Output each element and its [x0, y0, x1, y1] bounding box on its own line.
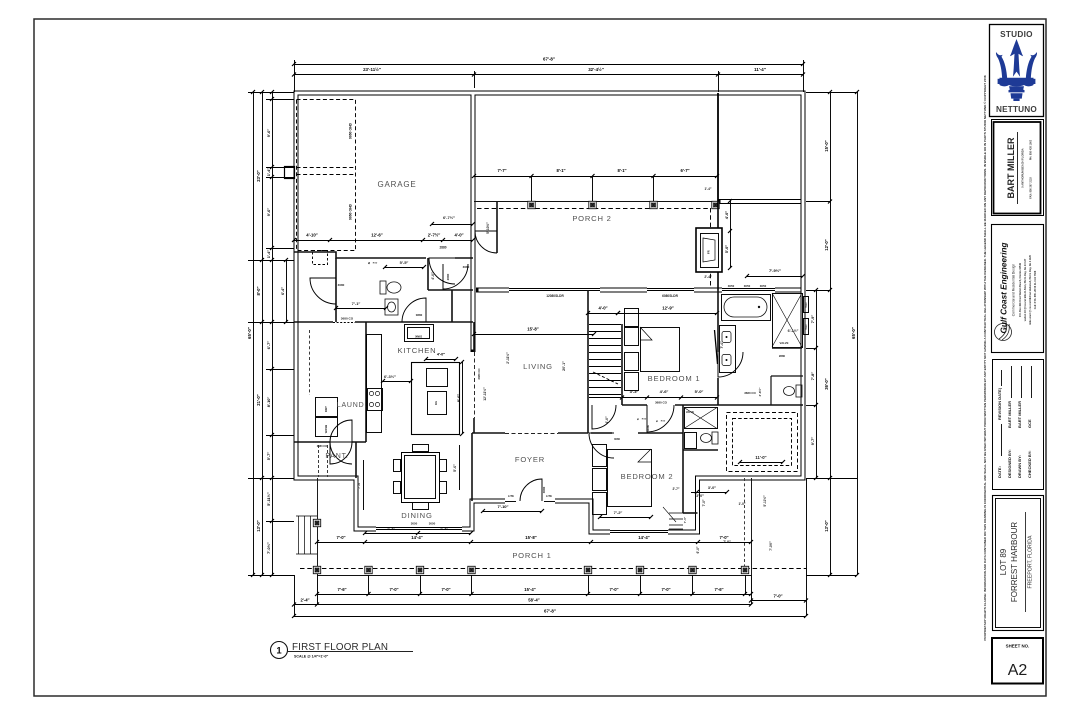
svg-text:BART MILLER: BART MILLER: [1017, 401, 1022, 428]
svg-text:5′-0″: 5′-0″: [695, 389, 704, 394]
svg-text:15′-8″: 15′-8″: [525, 535, 536, 540]
svg-text:1′-4″: 1′-4″: [705, 187, 712, 191]
svg-text:8′-10″: 8′-10″: [266, 397, 271, 408]
svg-text:4′-6″: 4′-6″: [660, 389, 669, 394]
living dim: [474, 334, 594, 336]
title block: revision box: [993, 360, 1044, 490]
svg-text:7′-9½″: 7′-9½″: [769, 268, 781, 273]
svg-text:Gulf Coast Engineering: Gulf Coast Engineering: [1000, 243, 1009, 334]
svg-text:6080SLDR: 6080SLDR: [662, 294, 678, 298]
laundry door arc: [330, 420, 352, 442]
porch1 east dashed: [744, 478, 746, 566]
svg-text:5′-7″: 5′-7″: [266, 452, 271, 461]
svg-text:5′-6″: 5′-6″: [453, 464, 457, 472]
stair treads: [589, 325, 621, 395]
svg-text:PROPRIETARY RIGHTS CLAUSE: INF: PROPRIETARY RIGHTS CLAUSE: INFORMATION A…: [983, 75, 987, 641]
svg-text:LAUND.: LAUND.: [337, 402, 367, 409]
dining table: [402, 453, 440, 503]
svg-text:20′-1″: 20′-1″: [562, 361, 566, 371]
svg-text:PANT.: PANT.: [325, 453, 348, 460]
svg-text:1′-0″: 1′-0″: [739, 502, 746, 506]
svg-text:7′-2″: 7′-2″: [614, 510, 623, 515]
svg-text:2880: 2880: [439, 246, 446, 250]
svg-text:7′-0″: 7′-0″: [723, 540, 731, 544]
east wall windows: [804, 297, 809, 313]
svg-text:BART MILLER: BART MILLER: [1007, 401, 1012, 428]
laundry appliances: [316, 398, 338, 417]
svg-text:4′-10″: 4′-10″: [306, 233, 317, 238]
svg-text:WASH: WASH: [324, 425, 328, 433]
outdoor fireplace FP: [696, 228, 722, 272]
svg-text:7′-0″: 7′-0″: [441, 587, 450, 592]
svg-text:2680: 2680: [446, 273, 450, 280]
opening: front door: [505, 498, 555, 505]
svg-text:3680 CO: 3680 CO: [655, 401, 668, 405]
bath3 vanity: [685, 433, 697, 449]
svg-text:3080: 3080: [614, 437, 620, 441]
svg-text:9′-6″: 9′-6″: [266, 208, 271, 217]
master WC: [771, 376, 803, 405]
master vanity: [720, 326, 736, 373]
top dimension lines: [294, 60, 296, 92]
porch1 roof dashed: [300, 568, 806, 570]
mirror tilt: [715, 330, 718, 364]
stair walls: [587, 290, 589, 433]
svg-text:8′-6″: 8′-6″: [457, 394, 461, 402]
svg-text:3050: 3050: [728, 284, 735, 288]
wall: pantry east: [355, 442, 357, 478]
svg-text:mike ward @ cox.net Michael: mike ward @ cox.net Michael Haliwash, PE…: [1029, 254, 1032, 324]
svg-text:32′-4½″: 32′-4½″: [588, 67, 605, 72]
garage south wall: [294, 252, 473, 258]
bath3 toilet: [701, 432, 719, 444]
svg-text:9′-7″: 9′-7″: [810, 437, 815, 446]
svg-text:CHECKED BY:: CHECKED BY:: [1027, 451, 1032, 478]
svg-text:13′-0″: 13′-0″: [256, 520, 261, 531]
svg-text:1′-4″: 1′-4″: [266, 168, 271, 177]
svg-text:7′-0″: 7′-0″: [683, 516, 687, 523]
svg-text:7′-0″: 7′-0″: [773, 594, 782, 599]
svg-text:2′-11½″: 2′-11½″: [506, 352, 510, 364]
left dimension lines: [248, 92, 294, 94]
wall: bath3 west: [682, 405, 684, 513]
svg-text:9060 OHD: 9060 OHD: [349, 203, 353, 220]
svg-text:6′-7″: 6′-7″: [680, 168, 689, 173]
svg-text:8′-0″: 8′-0″: [256, 286, 261, 295]
svg-text:6′-3½″: 6′-3½″: [384, 374, 396, 379]
title block: sheet number box: [992, 638, 1043, 684]
bath2 toilet: [380, 281, 401, 294]
svg-text:GCE: GCE: [1027, 419, 1032, 428]
svg-text:SCALE @ 1/4″=1′-0″: SCALE @ 1/4″=1′-0″: [294, 655, 329, 659]
garage entry door: [429, 258, 455, 284]
svg-text:5′-11½″: 5′-11½″: [266, 492, 271, 506]
closet door right: [443, 264, 468, 289]
svg-text:7′-0½″: 7′-0½″: [769, 541, 773, 551]
wall: porch 2 south / master north: [476, 288, 803, 293]
garage overhead door dashed tracks: [297, 100, 356, 251]
master shower: [773, 294, 803, 348]
svg-text:6′-1½″: 6′-1½″: [788, 329, 799, 333]
wall: NE room west: [717, 93, 719, 201]
svg-text:67′-8″: 67′-8″: [544, 609, 557, 614]
exterior wall envelope: [296, 93, 803, 532]
svg-text:6′-7½″: 6′-7½″: [443, 215, 455, 220]
wall: master west: [717, 290, 719, 405]
porch1 posts: [313, 566, 320, 573]
svg-text:8′-1″: 8′-1″: [556, 168, 565, 173]
svg-text:GARAGE: GARAGE: [377, 180, 416, 189]
svg-text:LITE: LITE: [508, 494, 514, 498]
svg-text:DESIGNED BY:: DESIGNED BY:: [1007, 449, 1012, 478]
svg-text:5030: 5030: [806, 324, 808, 330]
svg-text:DINING: DINING: [401, 511, 432, 520]
hall closet arcs: [592, 405, 616, 429]
bath2 vanity: [385, 299, 398, 315]
svg-text:5030: 5030: [806, 302, 808, 308]
svg-text:2880: 2880: [779, 354, 786, 358]
wall: closet/bath2 divider: [335, 258, 337, 322]
svg-text:⌀: ⌀: [637, 417, 639, 421]
svg-text:5′-5″: 5′-5″: [400, 260, 409, 265]
svg-text:6′-7″: 6′-7″: [266, 341, 271, 350]
svg-text:7′-0″: 7′-0″: [609, 587, 618, 592]
svg-text:7′-0″: 7′-0″: [357, 481, 361, 489]
svg-text:4′-0″: 4′-0″: [454, 233, 463, 238]
svg-text:P.O. Box 4913 Fort Walton Beac: P.O. Box 4913 Fort Walton Beach, Florida…: [1019, 262, 1022, 317]
svg-text:12′-11½″: 12′-11½″: [483, 387, 487, 401]
svg-text:ROD: ROD: [661, 421, 666, 423]
vestibule walls: [496, 201, 498, 253]
svg-text:5′-0″: 5′-0″: [725, 245, 729, 253]
svg-text:6′-0″: 6′-0″: [696, 546, 700, 553]
garage water heater dashed: [313, 251, 328, 265]
svg-text:LIVING: LIVING: [523, 362, 553, 371]
svg-text:2′-7″: 2′-7″: [673, 487, 680, 491]
svg-text:FP.: FP.: [707, 250, 711, 254]
svg-text:PORCH 2: PORCH 2: [572, 214, 611, 223]
svg-text:7′-0″: 7′-0″: [702, 499, 706, 506]
svg-text:3050: 3050: [760, 284, 767, 288]
svg-text:15′-4″: 15′-4″: [524, 587, 535, 592]
kitchen west counter: [367, 335, 382, 433]
wall: patio north: [718, 404, 803, 406]
svg-text:3050: 3050: [429, 522, 436, 526]
bath3 shower: [685, 408, 718, 429]
porch 2 posts: [528, 201, 535, 208]
svg-text:5 ANTHORUM BEACH FLORIDA: 5 ANTHORUM BEACH FLORIDA: [1021, 148, 1025, 188]
svg-text:2′-4″: 2′-4″: [704, 275, 712, 279]
svg-text:7′-2″: 7′-2″: [440, 526, 449, 531]
svg-text:3680 CO: 3680 CO: [744, 391, 756, 395]
opening: bedroom1 slider 6080SLDR: [647, 287, 694, 293]
svg-text:7′-1″: 7′-1″: [352, 301, 361, 306]
svg-text:STUDIO: STUDIO: [1000, 30, 1033, 39]
svg-text:14′-4″: 14′-4″: [411, 535, 422, 540]
svg-text:67′-8″: 67′-8″: [543, 57, 556, 62]
wall: bedroom1 south: [622, 404, 718, 406]
svg-text:15′-8″: 15′-8″: [527, 327, 538, 332]
svg-text:7′-4″: 7′-4″: [720, 341, 724, 349]
svg-text:3680 CO: 3680 CO: [341, 317, 354, 321]
svg-text:4′-0″: 4′-0″: [431, 272, 435, 280]
svg-text:7′-9″: 7′-9″: [810, 315, 815, 324]
svg-text:VALVE: VALVE: [780, 341, 789, 345]
svg-text:4′-0″: 4′-0″: [437, 353, 445, 357]
svg-text:23′-0″: 23′-0″: [256, 170, 261, 181]
svg-text:7′-10″: 7′-10″: [498, 504, 509, 509]
svg-text:23′-11½″: 23′-11½″: [363, 67, 382, 72]
svg-text:3050: 3050: [411, 522, 418, 526]
svg-text:PORCH 1: PORCH 1: [512, 551, 551, 560]
svg-text:DRY: DRY: [324, 406, 328, 412]
svg-text:5′-10½″: 5′-10½″: [486, 222, 490, 234]
svg-text:5′-11½″: 5′-11½″: [763, 495, 767, 507]
svg-text:VALVE: VALVE: [686, 410, 695, 414]
bed1 dims: [618, 313, 717, 315]
svg-text:BEDROOM 1: BEDROOM 1: [648, 374, 701, 383]
svg-text:FORREST HARBOUR: FORREST HARBOUR: [1010, 522, 1019, 603]
svg-text:3080: 3080: [646, 424, 650, 431]
svg-text:LITE: LITE: [546, 494, 552, 498]
svg-text:12080SLDR: 12080SLDR: [546, 294, 564, 298]
kitchen sink counter: [405, 325, 434, 342]
svg-text:3′-0″: 3′-0″: [708, 486, 716, 490]
svg-text:0880: 0880: [416, 313, 423, 317]
svg-text:NETTUNO: NETTUNO: [996, 105, 1037, 114]
svg-text:2′-4″: 2′-4″: [300, 598, 309, 603]
wall: kitchen north: [294, 321, 473, 323]
range: [368, 389, 383, 411]
svg-text:11′-0″: 11′-0″: [755, 455, 766, 460]
svg-text:12′-0″: 12′-0″: [824, 239, 829, 250]
svg-text:7′-0″: 7′-0″: [336, 535, 345, 540]
svg-text:FOYER: FOYER: [515, 455, 545, 464]
svg-text:3080: 3080: [338, 283, 345, 287]
svg-text:DATE:: DATE:: [997, 466, 1002, 478]
svg-text:13′-0″: 13′-0″: [824, 520, 829, 531]
svg-text:BART MILLER: BART MILLER: [1006, 137, 1016, 198]
svg-text:7′-6″: 7′-6″: [714, 587, 723, 592]
svg-text:1: 1: [276, 646, 282, 657]
svg-text:12′-6″: 12′-6″: [371, 233, 382, 238]
pantry shelves dashed: [318, 445, 320, 477]
wall: living south / foyer north: [472, 432, 588, 434]
svg-text:LOT 89: LOT 89: [999, 548, 1008, 575]
svg-text:⌀: ⌀: [656, 419, 658, 423]
svg-text:12′-9″: 12′-9″: [662, 306, 673, 311]
svg-text:7′-0″: 7′-0″: [661, 587, 670, 592]
svg-text:RG: RG: [434, 401, 438, 405]
svg-text:36′-0″: 36′-0″: [824, 378, 829, 389]
svg-text:FAX: 850 267 2118: FAX: 850 267 2118: [1030, 177, 1033, 199]
right dimension lines: [806, 92, 857, 94]
svg-text:4′-0″: 4′-0″: [605, 416, 609, 424]
svg-text:11′-4″: 11′-4″: [754, 67, 767, 72]
svg-text:7′-0″: 7′-0″: [389, 587, 398, 592]
wall: bath2 east: [428, 258, 473, 322]
svg-text:3′-8½″: 3′-8½″: [758, 387, 762, 397]
kitchen island: [412, 363, 460, 435]
drawing title: [271, 642, 288, 659]
opening: dining windows: [376, 526, 462, 532]
svg-text:walton 18 @cox.net Ellis R A: walton 18 @cox.net Ellis R Allen, PE FL …: [1024, 258, 1027, 321]
svg-text:FREEPORT, FLORIDA: FREEPORT, FLORIDA: [1028, 535, 1034, 588]
svg-text:9060 OHD: 9060 OHD: [349, 122, 353, 139]
svg-text:1′-4″: 1′-4″: [266, 250, 271, 259]
garage west wall jog: [285, 167, 295, 179]
svg-text:65′-0″: 65′-0″: [851, 326, 856, 339]
porch 2 roof dashed: [477, 208, 710, 210]
svg-text:58′-4″: 58′-4″: [528, 598, 539, 603]
wall: laundry-kitchen divider: [365, 322, 367, 442]
svg-text:DRAWN BY:: DRAWN BY:: [1017, 455, 1022, 478]
svg-text:7′-8″: 7′-8″: [810, 372, 815, 381]
svg-text:14′-4″: 14′-4″: [638, 535, 649, 540]
title block: BART MILLER box: [992, 120, 1044, 216]
closet door: [310, 278, 336, 304]
svg-text:Commercial and Residential Des: Commercial and Residential Design: [1012, 264, 1016, 317]
svg-text:21′-0″: 21′-0″: [256, 394, 261, 405]
svg-text:A2: A2: [1008, 662, 1028, 679]
svg-text:3050: 3050: [744, 284, 751, 288]
svg-text:BEDROOM 2: BEDROOM 2: [621, 472, 674, 481]
patio dashed roof: [727, 413, 798, 472]
opening: living sliding door 12080SLDR: [509, 287, 600, 293]
bed1 dresser column: [625, 309, 639, 327]
wall: bedroom2 north: [591, 432, 683, 434]
svg-text:9′-6″: 9′-6″: [266, 129, 271, 138]
svg-text:7′-0½″: 7′-0½″: [266, 542, 271, 554]
svg-text:SINK: SINK: [414, 335, 422, 339]
svg-text:4′-0″: 4′-0″: [725, 211, 729, 219]
svg-text:3080 CO: 3080 CO: [477, 368, 481, 380]
bed2 dresser column: [593, 445, 607, 467]
svg-text:3′-0″: 3′-0″: [696, 494, 704, 498]
gulf coast logo swoosh: [995, 322, 1012, 341]
svg-text:7′-6″: 7′-6″: [337, 587, 346, 592]
svg-text:⌀: ⌀: [368, 261, 370, 265]
svg-text:6′-4″: 6′-4″: [281, 287, 285, 295]
garage interior dim line: [294, 240, 473, 242]
svg-text:65′-0″: 65′-0″: [247, 326, 252, 339]
svg-text:15′-0″: 15′-0″: [824, 140, 829, 151]
garage east wall: [471, 92, 476, 352]
opening: master bath windows: [722, 287, 775, 293]
svg-text:KITCHEN: KITCHEN: [398, 346, 437, 355]
svg-text:ROD: ROD: [642, 419, 647, 421]
steps by bedroom2: [669, 513, 683, 529]
wall: NE room south: [718, 199, 803, 204]
kitchen east cased opening: [473, 322, 475, 352]
master bath tub: [722, 295, 771, 321]
svg-text:Cell: 8 50- 865 -28 06: Cell: 8 50- 865 -28 06 FL CA# 7668: [1034, 270, 1037, 309]
svg-text:PH: 850 428 1003: PH: 850 428 1003: [1030, 139, 1033, 160]
bottom dimension rows: [365, 533, 471, 535]
svg-text:3′-3″: 3′-3″: [630, 389, 639, 394]
svg-text:8′-1″: 8′-1″: [617, 168, 626, 173]
porch1 west steps: [296, 516, 317, 554]
bed 2: [608, 450, 652, 507]
porch1 slab edge: [317, 575, 751, 577]
bath2 door: [402, 298, 426, 322]
svg-text:2′-7½″: 2′-7½″: [428, 233, 441, 238]
trident logo: [996, 39, 1037, 101]
svg-text:3080 CO: 3080 CO: [317, 444, 327, 448]
svg-text:REVISION DATE): REVISION DATE): [997, 387, 1002, 420]
porch 2 beam line: [474, 201, 718, 203]
svg-text:ROD: ROD: [373, 263, 378, 265]
porch 2 post dim line: [531, 176, 533, 201]
svg-text:7′-7″: 7′-7″: [497, 168, 506, 173]
svg-text:3080: 3080: [463, 265, 470, 269]
front door: [520, 479, 542, 501]
svg-text:3080: 3080: [542, 486, 546, 493]
wall: laundry south: [294, 441, 366, 443]
svg-text:4′-0″: 4′-0″: [598, 306, 607, 311]
bed 1: [641, 328, 680, 372]
title block: project box: [993, 496, 1044, 631]
svg-text:SHEET NO.: SHEET NO.: [1006, 644, 1030, 649]
title block: Gulf Coast Engineering box: [992, 225, 1044, 353]
title block: STUDIO NETTUNO logo box: [990, 25, 1044, 117]
svg-text:7′-2″: 7′-2″: [387, 526, 396, 531]
opening: bedroom2 windows: [610, 529, 668, 535]
